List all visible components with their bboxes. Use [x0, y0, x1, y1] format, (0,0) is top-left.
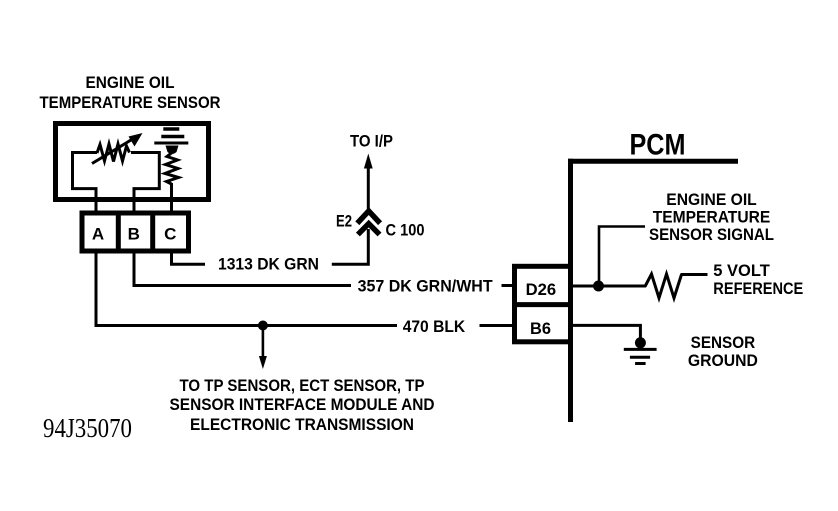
label: sensor ground — [688, 333, 758, 370]
svg-text:C: C — [164, 225, 176, 244]
leader to sensor signal label — [599, 227, 645, 287]
svg-text:SENSOR: SENSOR — [691, 333, 756, 352]
wire: pin A to 470 label — [96, 253, 397, 326]
svg-text:ELECTRONIC TRANSMISSION: ELECTRONIC TRANSMISSION — [190, 415, 414, 434]
wire: D26 to resistor — [573, 285, 646, 288]
svg-text:TO I/P: TO I/P — [350, 131, 393, 150]
PCM boundary top line — [568, 159, 738, 164]
wire: variable resistor to pin B — [131, 153, 159, 203]
resistor 5 volt reference pull-up — [645, 274, 682, 298]
wire: 357 label into pin D26 — [502, 284, 514, 287]
svg-text:ENGINE OIL: ENGINE OIL — [86, 73, 175, 92]
junction node on 470 BLK — [258, 321, 268, 331]
svg-text:REFERENCE: REFERENCE — [713, 279, 803, 298]
ground symbol (sensor ground) — [624, 349, 657, 363]
wire: thermistor to pin C — [170, 183, 173, 211]
svg-text:ENGINE OIL: ENGINE OIL — [666, 190, 757, 209]
svg-text:C 100: C 100 — [386, 221, 425, 240]
wire: pin B to 357 label — [134, 253, 351, 286]
wire: resistor to 5V label — [681, 273, 708, 276]
svg-text:E2: E2 — [336, 211, 352, 230]
case ground symbol (inverted earth) — [154, 129, 188, 154]
svg-text:GROUND: GROUND — [688, 351, 758, 370]
junction node at ground — [635, 337, 646, 348]
connector block A B C — [82, 211, 189, 253]
PCM pin block D26 / B6 — [512, 266, 573, 342]
svg-text:5 VOLT: 5 VOLT — [713, 261, 770, 280]
arrow to other sensors — [259, 328, 267, 369]
svg-text:D26: D26 — [526, 281, 557, 299]
wire: pin B stub into case — [133, 200, 136, 211]
svg-text:1313 DK GRN: 1313 DK GRN — [218, 255, 319, 274]
junction blob — [166, 146, 179, 155]
wire: 470 label into pin B6 — [480, 324, 514, 327]
wire: B6 to sensor ground — [573, 325, 640, 340]
svg-text:TEMPERATURE SENSOR: TEMPERATURE SENSOR — [40, 93, 221, 112]
variable resistor arrow — [92, 133, 143, 164]
wire: pin A stub into case — [95, 200, 98, 211]
label: TO TP SENSOR note — [170, 376, 435, 434]
svg-text:470 BLK: 470 BLK — [403, 317, 466, 336]
wire: pin C to 1313 label — [172, 253, 206, 264]
svg-text:TO TP SENSOR, ECT SENSOR, TP: TO TP SENSOR, ECT SENSOR, TP — [180, 376, 425, 395]
label: 5 volt reference — [713, 261, 803, 298]
wire: inner loop pin A to variable resistor — [73, 153, 98, 203]
wire: C100 up to I/P arrow — [367, 166, 370, 209]
junction node on sensor signal — [593, 281, 604, 292]
arrowhead to I/P — [364, 154, 373, 169]
svg-text:SENSOR INTERFACE MODULE AND: SENSOR INTERFACE MODULE AND — [170, 395, 435, 414]
wire: 1313 label to C100 connector — [332, 229, 369, 264]
connector C100 double chevron — [357, 211, 380, 235]
svg-text:A: A — [92, 225, 104, 244]
svg-text:94J35070: 94J35070 — [43, 413, 132, 443]
svg-text:SENSOR SIGNAL: SENSOR SIGNAL — [649, 225, 774, 244]
svg-text:TEMPERATURE: TEMPERATURE — [653, 207, 771, 226]
svg-text:PCM: PCM — [630, 129, 686, 162]
variable resistor R (sensor element) — [97, 144, 130, 162]
svg-text:357 DK GRN/WHT: 357 DK GRN/WHT — [358, 276, 494, 295]
svg-text:B6: B6 — [530, 320, 551, 338]
PCM boundary left line — [568, 159, 573, 422]
thermistor (vertical resistor) — [165, 153, 179, 184]
label: engine oil temperature sensor signal — [649, 190, 774, 244]
svg-text:B: B — [128, 225, 140, 244]
label: ENGINE OIL TEMPERATURE SENSOR title — [40, 73, 221, 112]
sensor case box — [56, 124, 209, 200]
